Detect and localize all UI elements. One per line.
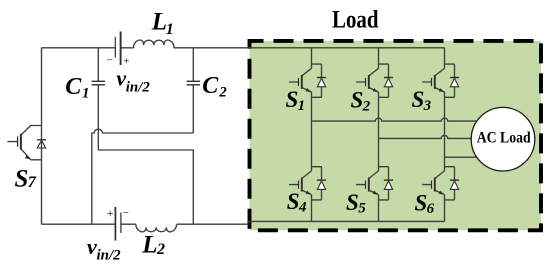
svg-text:2: 2 [362, 99, 371, 115]
wire upper mid rail with hop over C1 lead [92, 129, 194, 224]
load box dashed border [250, 41, 542, 230]
wire leg2 [378, 97, 380, 221]
battery V1 vin/2 top [115, 32, 120, 66]
svg-text:5: 5 [358, 201, 366, 217]
load box green region [250, 41, 542, 230]
svg-text:S: S [286, 87, 299, 112]
wire phase A with hops [312, 118, 477, 121]
label C2 [202, 73, 227, 101]
transistor S5 [356, 150, 393, 200]
svg-text:6: 6 [427, 201, 435, 217]
wire lower mid rail [98, 150, 193, 224]
svg-text:4: 4 [298, 200, 307, 216]
svg-text:L: L [151, 9, 167, 36]
label S1 [286, 87, 306, 114]
wire leg1 [311, 97, 313, 221]
label S7 [15, 166, 37, 193]
svg-text:C: C [65, 74, 82, 100]
svg-text:+: + [107, 206, 114, 220]
transistor S7 [7, 126, 46, 160]
label vin/2 bottom [87, 234, 121, 264]
wire bottom rail [42, 221, 445, 224]
label S2 [351, 88, 371, 115]
svg-text:S: S [351, 88, 364, 113]
wire phase B with hop [379, 135, 472, 138]
transistor S2 [356, 48, 393, 98]
svg-text:−: − [107, 55, 113, 67]
svg-text:2: 2 [156, 241, 165, 258]
capacitor C1 [92, 48, 105, 150]
transistor S4 [289, 150, 326, 200]
battery V2 vin/2 bottom [115, 207, 121, 241]
svg-text:1: 1 [166, 21, 174, 38]
transistor S6 [422, 150, 459, 200]
AC load circle [471, 107, 535, 171]
svg-text:S: S [415, 191, 428, 216]
inductor L2 [136, 224, 177, 231]
svg-text:S: S [15, 166, 29, 193]
svg-text:in/2: in/2 [97, 248, 122, 264]
label L1 [151, 9, 174, 38]
label vin/2 top [116, 66, 150, 96]
label S3 [412, 87, 432, 114]
svg-text:C: C [202, 73, 219, 99]
svg-text:Load: Load [332, 6, 379, 33]
transistor S3 [422, 48, 459, 98]
svg-text:S: S [287, 189, 300, 214]
svg-text:in/2: in/2 [126, 80, 151, 96]
svg-text:S: S [346, 190, 359, 215]
svg-text:AC Load: AC Load [477, 129, 531, 146]
svg-text:1: 1 [298, 98, 306, 114]
svg-text:1: 1 [82, 86, 90, 102]
svg-text:3: 3 [423, 98, 432, 114]
svg-text:2: 2 [218, 85, 227, 101]
svg-text:S: S [412, 87, 425, 112]
label L2 [141, 232, 165, 259]
label S6 [415, 191, 435, 218]
label S5 [346, 190, 366, 217]
wire phase C [445, 156, 477, 158]
wire top rail [42, 47, 445, 49]
svg-text:−: − [123, 207, 129, 219]
transistor S1 [289, 48, 326, 98]
capacitor C2 [187, 48, 200, 133]
svg-text:L: L [141, 232, 157, 259]
label S4 [287, 189, 307, 216]
svg-text:7: 7 [28, 174, 37, 191]
label C1 [65, 74, 89, 102]
svg-text:v: v [87, 234, 97, 259]
wire left branch [41, 48, 43, 224]
wire leg3 [444, 97, 446, 221]
inductor L1 [133, 40, 174, 48]
